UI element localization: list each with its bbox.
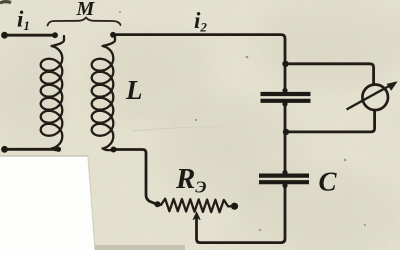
capacitor C plate 2 [259,180,309,184]
node terminal i1 top [1,32,8,39]
resistor R zigzag [158,199,233,213]
mutual inductance brace M [48,18,121,26]
junction capacitor C top [282,170,287,175]
meter arrow shaft [347,86,391,110]
node rheostat left terminal [155,201,161,207]
wire i2 top run to right column [115,35,285,91]
node terminal i1 bottom [1,146,8,153]
wire primary bottom lead [4,148,58,151]
junction capacitor 1 top [282,88,287,93]
wire meter branch lower [286,110,375,132]
junction primary coil top [52,32,58,38]
rheostat wiper arrowhead [193,212,200,220]
node rheostat right terminal [231,203,238,210]
svg-text:M: M [76,0,96,20]
wire right column between capacitors [284,103,287,173]
junction L coil bottom [111,147,117,153]
junction L coil top [110,32,116,38]
junction meter branch bottom [283,129,289,135]
inductor L secondary winding [92,36,115,150]
wire L coil to rheostat [113,150,155,204]
meter arrowhead [388,82,397,90]
meter body circle [362,85,388,111]
junction capacitor 1 bottom [282,101,287,106]
junction primary coil bottom [56,147,61,152]
wire primary top lead i1 [4,34,56,37]
wire meter branch upper [285,64,374,85]
wire right column bottom run and wiper stem [197,185,286,243]
inductor primary winding [41,36,64,150]
capacitor upper plate 1 [261,92,311,96]
svg-text:C: C [319,167,338,197]
capacitor upper plate 2 [261,99,311,103]
junction capacitor C bottom [282,183,287,188]
junction meter branch top [282,61,288,67]
svg-text:L: L [125,75,143,105]
capacitor C plate 1 [259,174,309,178]
